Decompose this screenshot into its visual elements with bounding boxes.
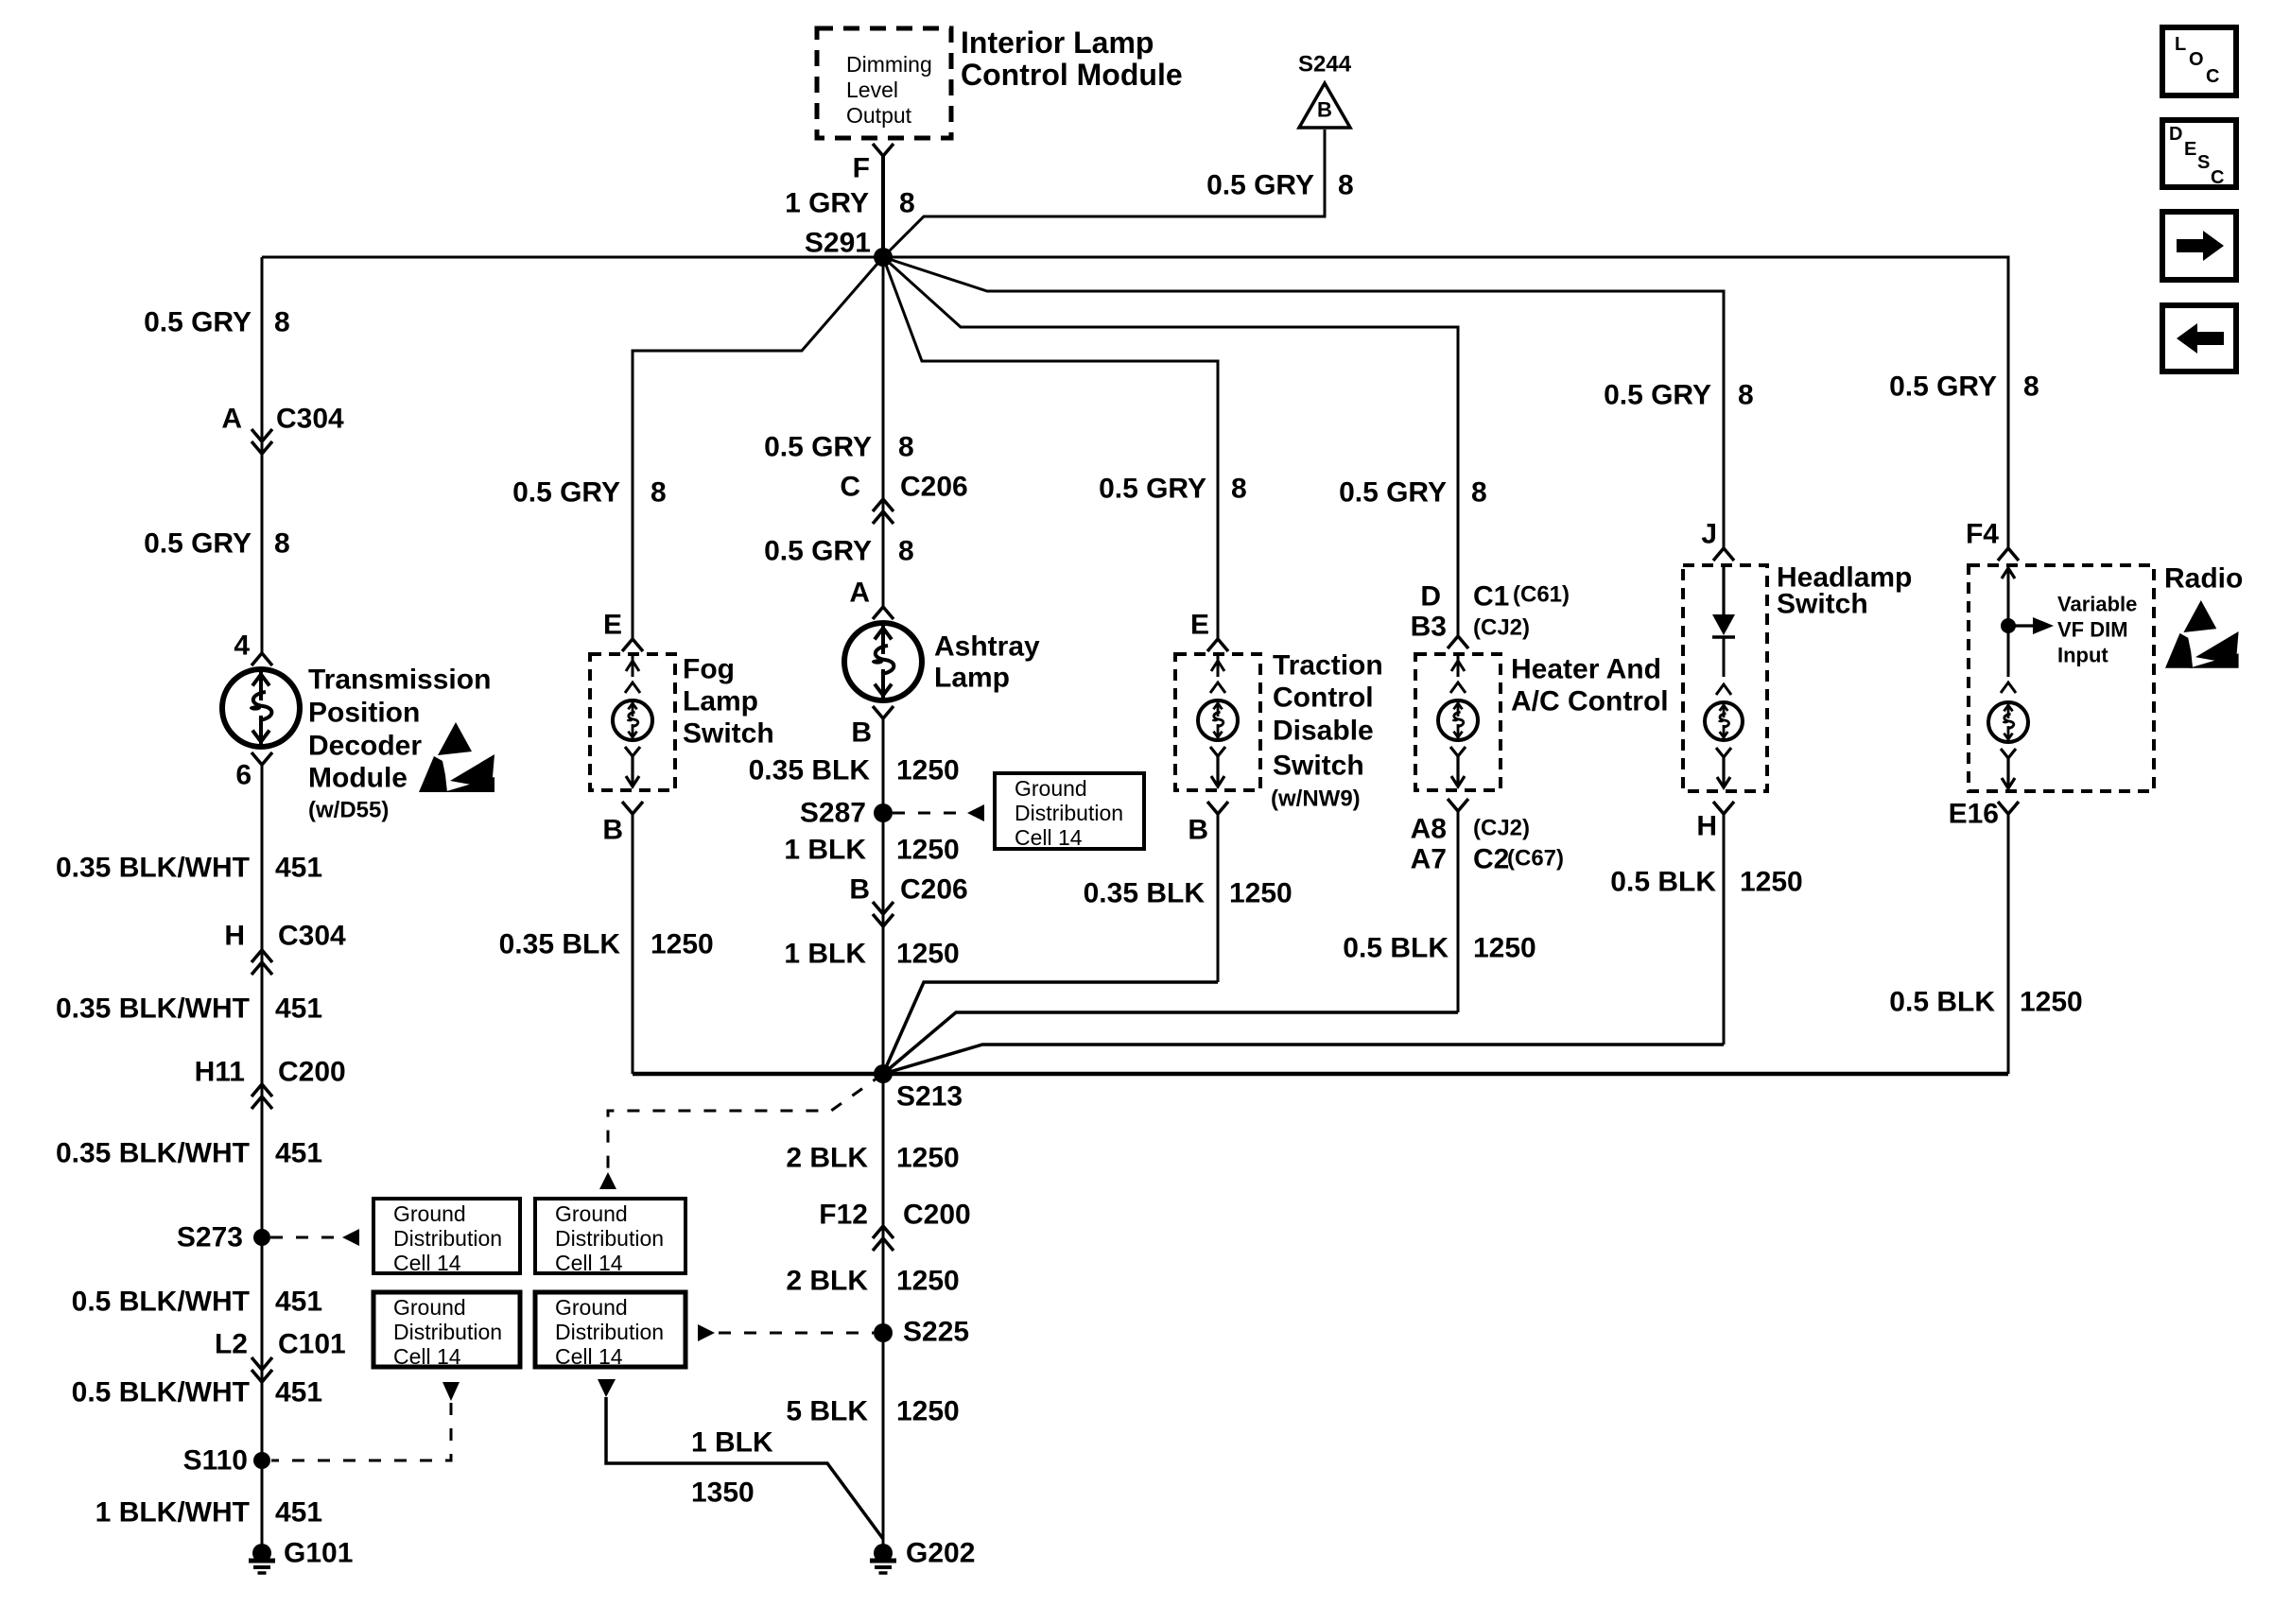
label: Traction Control Disable Switch: [1271, 650, 1383, 812]
label: Headlamp Switch: [1777, 562, 1912, 620]
svg-text:Switch: Switch: [1777, 589, 1868, 620]
dashed reference: S213 to Ground Distribution Cell 14 box 2: [599, 1074, 883, 1189]
fog switch lamp bottom connector: [625, 747, 640, 786]
off-page connector S244 (triangle B): [1298, 52, 1352, 129]
wire label 0.5 GRY 8 (below C206 C): [764, 536, 914, 567]
svg-text:1250: 1250: [651, 929, 714, 960]
svg-text:1250: 1250: [896, 1143, 960, 1174]
connector C206 pin C: [840, 472, 967, 525]
label: Fog Lamp Switch: [683, 654, 774, 750]
svg-text:0.5 GRY: 0.5 GRY: [1099, 474, 1206, 505]
ground distribution box (S287): [995, 773, 1144, 850]
svg-text:Distribution: Distribution: [1015, 801, 1123, 825]
wire label 0.5 GRY 8 (traction): [1099, 474, 1247, 505]
svg-text:C304: C304: [276, 404, 344, 435]
svg-text:C206: C206: [900, 874, 968, 906]
svg-text:451: 451: [275, 1497, 322, 1529]
wire: radio E16 down to S213: [2007, 814, 2010, 1074]
svg-text:O: O: [2189, 49, 2204, 70]
wire label 1 BLK 1250 (above C206 B): [784, 835, 959, 866]
svg-text:B3: B3: [1411, 612, 1447, 643]
svg-text:C200: C200: [278, 1057, 346, 1088]
svg-text:0.5 GRY: 0.5 GRY: [1889, 371, 1997, 403]
wire label 5 BLK 1250: [786, 1396, 959, 1427]
wire label 0.5 GRY 8 (left col lower): [144, 528, 290, 560]
svg-text:B: B: [602, 815, 623, 846]
svg-text:B: B: [1188, 815, 1208, 846]
svg-text:8: 8: [274, 528, 290, 560]
lamp: traction switch illumination: [1198, 700, 1238, 740]
svg-text:Cell 14: Cell 14: [555, 1251, 623, 1275]
pin 4 of Transmission Position Decoder Module: [234, 631, 272, 666]
svg-text:1 BLK/WHT: 1 BLK/WHT: [95, 1497, 250, 1529]
svg-text:1250: 1250: [896, 835, 960, 866]
svg-text:0.5 GRY: 0.5 GRY: [512, 477, 620, 509]
svg-text:A8: A8: [1411, 814, 1447, 845]
svg-text:B: B: [849, 874, 870, 906]
svg-text:1250: 1250: [896, 1396, 960, 1427]
svg-text:B: B: [851, 717, 872, 749]
radio pin E16: [1949, 799, 2019, 830]
ground G202: [870, 1538, 975, 1574]
wire: S213 to traction branch: [883, 982, 1218, 1074]
traction switch lamp bottom connector: [1210, 747, 1225, 786]
radio lamp top connector: [2001, 682, 2016, 693]
splice S110: [183, 1445, 270, 1477]
svg-text:(CJ2): (CJ2): [1473, 615, 1530, 641]
svg-text:C200: C200: [903, 1200, 971, 1231]
svg-text:0.35 BLK: 0.35 BLK: [1084, 878, 1206, 909]
svg-text:0.35 BLK/WHT: 0.35 BLK/WHT: [56, 1138, 250, 1169]
wire: S213 to heater branch: [883, 1012, 1458, 1074]
svg-text:Transmission: Transmission: [308, 665, 491, 696]
wire: S291 to Heater/AC drop: [883, 257, 1458, 635]
svg-text:C1: C1: [1473, 581, 1509, 613]
splice S291: [805, 228, 893, 268]
svg-text:E: E: [2184, 139, 2196, 160]
nav box LOC: [2162, 27, 2236, 95]
svg-text:Fog: Fog: [683, 654, 735, 685]
wire label 0.35 BLK/WHT 451 (2): [56, 993, 322, 1025]
svg-text:0.35 BLK: 0.35 BLK: [749, 755, 871, 786]
svg-text:Dimming: Dimming: [846, 52, 932, 77]
svg-text:0.5 GRY: 0.5 GRY: [764, 432, 872, 463]
svg-text:Heater And: Heater And: [1511, 654, 1661, 685]
wire label 1 GRY 8: [785, 188, 915, 219]
svg-text:8: 8: [274, 307, 290, 338]
svg-text:1250: 1250: [1473, 933, 1536, 964]
svg-text:C101: C101: [278, 1329, 346, 1360]
wire label 0.5 BLK/WHT 451 (2): [72, 1377, 322, 1408]
wire: ashtray lamp pin B down to S213: [882, 718, 885, 1074]
svg-text:Ground: Ground: [555, 1201, 628, 1226]
svg-text:C304: C304: [278, 921, 346, 952]
wire: left column vertical lower: [261, 765, 264, 1543]
svg-text:S213: S213: [896, 1081, 963, 1113]
nav box arrow left: [2162, 305, 2236, 371]
splice S273: [177, 1222, 270, 1253]
svg-text:Traction: Traction: [1273, 650, 1383, 682]
splice S213: [874, 1064, 963, 1113]
label: Ashtray Lamp: [934, 631, 1040, 694]
svg-text:2 BLK: 2 BLK: [786, 1266, 868, 1297]
svg-text:0.35 BLK: 0.35 BLK: [499, 929, 621, 960]
svg-text:451: 451: [275, 993, 322, 1025]
svg-text:Lamp: Lamp: [934, 663, 1010, 694]
wire: S213 to radio branch: [883, 1072, 2008, 1077]
svg-text:1 BLK: 1 BLK: [784, 835, 866, 866]
svg-text:1250: 1250: [896, 1266, 960, 1297]
svg-text:Module: Module: [308, 763, 408, 794]
svg-text:Interior Lamp: Interior Lamp: [961, 26, 1154, 60]
switch: Traction Control Disable Switch (dashed box): [1175, 654, 1260, 790]
dashed reference: S287 to Ground Distribution Cell 14: [893, 804, 984, 821]
svg-text:1250: 1250: [896, 755, 960, 786]
wire label 0.5 BLK/WHT 451 (1): [72, 1287, 322, 1318]
svg-text:H: H: [1696, 811, 1717, 842]
wire: left column vertical upper: [261, 257, 264, 653]
ground distribution box 2 (S213): [535, 1199, 685, 1275]
ashtray lamp pin A: [849, 578, 894, 620]
svg-text:1 BLK: 1 BLK: [691, 1427, 773, 1459]
svg-text:0.5 GRY: 0.5 GRY: [1339, 477, 1447, 509]
wire: S291 left bus to left column: [262, 256, 883, 259]
svg-text:F4: F4: [1966, 519, 1999, 550]
label: Transmission Position Decoder Module: [308, 665, 491, 823]
pin 6 of Transmission Position Decoder Module: [235, 752, 272, 791]
wire label 1 BLK 1250 (below C206 B): [784, 939, 959, 970]
svg-text:A/C Control: A/C Control: [1511, 686, 1669, 717]
wire label 0.5 GRY 8 (radio): [1889, 371, 2039, 403]
radio internal input node: [2001, 567, 2054, 677]
diode inside headlamp switch: [1712, 567, 1735, 677]
svg-text:Switch: Switch: [683, 718, 774, 750]
svg-text:5 BLK: 5 BLK: [786, 1396, 868, 1427]
svg-text:Decoder: Decoder: [308, 731, 422, 762]
svg-text:1350: 1350: [691, 1477, 755, 1509]
svg-text:2 BLK: 2 BLK: [786, 1143, 868, 1174]
wire: S291 down to ashtray lamp pin A: [882, 257, 885, 607]
headlamp switch pin J: [1701, 519, 1734, 561]
connector C200 pin F12: [819, 1200, 970, 1252]
svg-text:E: E: [603, 610, 622, 641]
wire label 0.5 BLK 1250 (headlamp): [1610, 867, 1802, 898]
svg-text:Position: Position: [308, 698, 420, 729]
svg-text:Distribution: Distribution: [555, 1226, 664, 1251]
svg-text:0.5 GRY: 0.5 GRY: [144, 307, 252, 338]
connector C1 pin D / B3: [1411, 581, 1570, 649]
svg-text:Switch: Switch: [1273, 751, 1364, 782]
lamp: headlamp switch illumination: [1705, 702, 1743, 740]
svg-text:451: 451: [275, 1138, 322, 1169]
svg-text:8: 8: [899, 188, 915, 219]
svg-text:Cell 14: Cell 14: [393, 1344, 461, 1369]
svg-text:0.5 BLK: 0.5 BLK: [1610, 867, 1716, 898]
module: Radio (dashed box): [1969, 565, 2154, 791]
splice S225: [874, 1317, 969, 1348]
wire label 0.35 BLK/WHT 451 (3): [56, 1138, 322, 1169]
svg-text:Ground: Ground: [555, 1295, 628, 1320]
wire: S291 to Headlamp Switch drop: [883, 257, 1724, 548]
wire label 0.35 BLK/WHT 451 (1): [56, 853, 322, 884]
svg-text:S: S: [2197, 152, 2210, 173]
connector pin F at module output: [853, 144, 894, 184]
lamp: radio illumination: [1988, 702, 2028, 742]
module: Interior Lamp Control Module - Dimming Level Output (dashed box): [817, 28, 951, 138]
splice S287: [800, 798, 893, 829]
svg-text:Input: Input: [2057, 644, 2108, 667]
svg-text:8: 8: [1338, 170, 1354, 201]
svg-text:Distribution: Distribution: [393, 1320, 502, 1344]
svg-text:D: D: [1420, 581, 1441, 613]
wire: S291 to S244 (0.5 GRY 8): [883, 130, 1325, 257]
svg-text:Distribution: Distribution: [555, 1320, 664, 1344]
svg-text:4: 4: [234, 631, 250, 662]
svg-text:Level: Level: [846, 78, 898, 102]
wire: S213 to headlamp branch: [883, 1045, 1724, 1074]
ESD symbol (Transmission module): [419, 722, 495, 792]
svg-text:Radio: Radio: [2164, 563, 2243, 595]
wire label 0.5 GRY 8 (S244 branch): [1206, 170, 1354, 201]
switch: Headlamp Switch (dashed box): [1683, 565, 1767, 791]
svg-text:8: 8: [1471, 477, 1487, 509]
svg-text:C206: C206: [900, 472, 968, 503]
svg-text:8: 8: [1231, 474, 1247, 505]
wire: traction B down to S213 branch: [1217, 814, 1220, 982]
wire label 0.5 GRY 8 (above C206 C): [764, 432, 914, 463]
wire label 1 BLK/WHT 451: [95, 1497, 322, 1529]
ground distribution box 1 (S273): [373, 1199, 520, 1275]
svg-text:8: 8: [1738, 380, 1754, 411]
svg-text:1 BLK: 1 BLK: [784, 939, 866, 970]
wire: headlamp H down to S213 branch: [1723, 814, 1726, 1045]
wire: S291 to Fog Lamp drop: [633, 257, 883, 639]
wire: fog B down to S213: [632, 814, 634, 1074]
ESD symbol (radio): [2165, 600, 2239, 668]
svg-text:Distribution: Distribution: [393, 1226, 502, 1251]
fog switch pin B: [602, 802, 643, 846]
lamp: Transmission Position Decoder Module illumination: [222, 669, 300, 747]
svg-text:C: C: [2206, 66, 2219, 87]
svg-text:B: B: [1317, 98, 1332, 122]
lamp: fog lamp switch illumination: [613, 700, 652, 740]
svg-text:0.5 GRY: 0.5 GRY: [1604, 380, 1711, 411]
svg-text:A7: A7: [1411, 844, 1447, 875]
svg-text:8: 8: [2023, 371, 2039, 403]
nav box DESC: [2162, 120, 2236, 188]
wire label 2 BLK 1250 (below C200 F12): [786, 1266, 959, 1297]
svg-text:G202: G202: [906, 1538, 975, 1569]
wire label 0.5 GRY 8 (headlamp): [1604, 380, 1754, 411]
svg-text:451: 451: [275, 1377, 322, 1408]
label: Heater And A/C Control: [1511, 654, 1669, 717]
svg-text:VF DIM: VF DIM: [2057, 618, 2128, 642]
wire label 0.5 GRY 8 (heater): [1339, 477, 1487, 509]
svg-text:1250: 1250: [1229, 878, 1293, 909]
svg-text:Disable: Disable: [1273, 716, 1374, 747]
svg-text:G101: G101: [284, 1538, 353, 1569]
svg-text:L: L: [2175, 34, 2186, 55]
svg-text:S291: S291: [805, 228, 871, 259]
svg-text:1250: 1250: [2020, 987, 2083, 1018]
svg-text:0.35 BLK/WHT: 0.35 BLK/WHT: [56, 853, 250, 884]
connector C304 pin A: [221, 404, 344, 455]
wire label 0.35 BLK 1250 (ashtray): [749, 755, 960, 786]
connector C304 pin H: [224, 921, 346, 976]
svg-text:E16: E16: [1949, 799, 1999, 830]
wire: heater A7 down to S213 branch: [1457, 811, 1460, 1012]
svg-text:F: F: [853, 153, 870, 184]
svg-text:(C61): (C61): [1513, 582, 1570, 608]
label: Radio: [2164, 563, 2243, 595]
ground G101: [249, 1538, 353, 1574]
svg-text:Cell 14: Cell 14: [393, 1251, 461, 1275]
svg-text:A: A: [849, 578, 870, 609]
switch: Fog Lamp Switch (dashed box): [590, 654, 675, 790]
svg-text:1 GRY: 1 GRY: [785, 188, 869, 219]
svg-text:0.35 BLK/WHT: 0.35 BLK/WHT: [56, 993, 250, 1025]
label: Interior Lamp Control Module: [961, 26, 1183, 92]
wire: S291 right bus to Radio drop: [883, 257, 2008, 548]
svg-text:0.5 GRY: 0.5 GRY: [1206, 170, 1314, 201]
wire label 0.35 BLK 1250 (fog): [499, 929, 714, 960]
svg-text:J: J: [1701, 519, 1717, 550]
svg-text:S110: S110: [183, 1445, 248, 1477]
wire label 2 BLK 1250 (above C200 F12): [786, 1143, 959, 1174]
svg-text:S287: S287: [800, 798, 866, 829]
dashed reference: S273 to Ground Distribution Cell 14: [270, 1229, 359, 1246]
svg-text:D: D: [2169, 124, 2182, 145]
label: Variable VF DIM Input: [2057, 593, 2137, 667]
heater lamp bottom connector: [1450, 747, 1466, 786]
svg-text:Lamp: Lamp: [683, 686, 758, 717]
svg-text:8: 8: [898, 536, 914, 567]
svg-text:(C67): (C67): [1507, 846, 1564, 872]
headlamp lamp top connector: [1716, 684, 1731, 695]
svg-text:L2: L2: [215, 1329, 248, 1360]
svg-text:A: A: [221, 404, 242, 435]
wire label 0.35 BLK 1250 (traction): [1084, 878, 1293, 909]
wire label 0.5 BLK 1250 (radio): [1889, 987, 2082, 1018]
svg-text:F12: F12: [819, 1200, 868, 1231]
svg-text:Ground: Ground: [393, 1295, 466, 1320]
svg-text:H: H: [224, 921, 245, 952]
wire: S213 down through S225 to G202: [882, 1074, 885, 1543]
svg-text:0.5 BLK/WHT: 0.5 BLK/WHT: [72, 1287, 250, 1318]
svg-text:C: C: [840, 472, 860, 503]
svg-text:0.5 GRY: 0.5 GRY: [764, 536, 872, 567]
traction switch pin E: [1190, 610, 1228, 652]
ground distribution box 3 (S110): [373, 1292, 520, 1369]
svg-text:(w/D55): (w/D55): [308, 798, 389, 823]
svg-text:C2: C2: [1473, 844, 1509, 875]
connector C206 pin B: [849, 874, 967, 927]
wire label 0.5 GRY 8 (fog): [512, 477, 667, 509]
connector C101 pin L2: [215, 1329, 346, 1383]
svg-text:E: E: [1190, 610, 1209, 641]
svg-text:Output: Output: [846, 103, 912, 128]
control: Heater And A/C Control (dashed box): [1415, 654, 1501, 790]
svg-text:1250: 1250: [1740, 867, 1803, 898]
lamp: Ashtray Lamp: [844, 623, 922, 700]
lamp: heater control illumination: [1438, 700, 1478, 740]
wire: S291 to Traction drop: [883, 257, 1218, 639]
headlamp lamp bottom connector: [1716, 748, 1731, 787]
svg-text:(w/NW9): (w/NW9): [1271, 786, 1361, 812]
radio lamp bottom connector: [2001, 749, 2016, 788]
headlamp switch pin H: [1696, 802, 1734, 842]
wire label 1 BLK: [691, 1427, 773, 1459]
svg-text:8: 8: [651, 477, 667, 509]
svg-text:0.5 BLK/WHT: 0.5 BLK/WHT: [72, 1377, 250, 1408]
wire: module pin F down to S291: [881, 155, 885, 257]
connector C200 pin H11: [195, 1057, 346, 1110]
svg-text:0.5 GRY: 0.5 GRY: [144, 528, 252, 560]
wire: fog lamp branch to S213: [633, 1072, 883, 1077]
wire label 0.5 GRY 8 (left col upper): [144, 307, 290, 338]
svg-text:S225: S225: [903, 1317, 969, 1348]
svg-text:Ashtray: Ashtray: [934, 631, 1040, 663]
traction switch pin B: [1188, 802, 1228, 846]
nav box arrow right: [2162, 212, 2236, 280]
ground distribution box 4 (G202 branch): [535, 1292, 685, 1369]
svg-text:451: 451: [275, 853, 322, 884]
svg-text:H11: H11: [195, 1057, 245, 1088]
svg-text:1250: 1250: [896, 939, 960, 970]
svg-text:Control Module: Control Module: [961, 58, 1183, 92]
svg-text:Control: Control: [1273, 682, 1374, 714]
svg-text:Cell 14: Cell 14: [1015, 825, 1083, 850]
wire: box4 to G202 (1 BLK 1350): [598, 1379, 883, 1539]
svg-text:Variable: Variable: [2057, 593, 2137, 616]
dashed reference: S110 to Ground Distribution Cell 14 box 3: [271, 1382, 460, 1460]
svg-text:S273: S273: [177, 1222, 243, 1253]
connector C2 pins A8/A7: [1411, 799, 1564, 875]
svg-text:Ground: Ground: [393, 1201, 466, 1226]
svg-text:6: 6: [235, 760, 252, 791]
radio pin F4: [1966, 519, 2019, 561]
svg-text:S244: S244: [1298, 52, 1352, 78]
wire label 0.5 BLK 1250 (heater): [1343, 933, 1536, 964]
svg-text:Cell 14: Cell 14: [555, 1344, 623, 1369]
svg-text:C: C: [2211, 167, 2224, 188]
svg-text:0.5 BLK: 0.5 BLK: [1343, 933, 1449, 964]
svg-text:0.5 BLK: 0.5 BLK: [1889, 987, 1995, 1018]
wire label 1350: [691, 1477, 755, 1509]
svg-text:Ground: Ground: [1015, 776, 1087, 801]
ashtray lamp pin B: [851, 706, 894, 749]
fog switch pin E: [603, 610, 643, 652]
svg-text:451: 451: [275, 1287, 322, 1318]
svg-text:(CJ2): (CJ2): [1473, 816, 1530, 841]
svg-text:8: 8: [898, 432, 914, 463]
dashed reference: S225 to Ground Distribution Cell 14 box 4: [698, 1324, 874, 1341]
